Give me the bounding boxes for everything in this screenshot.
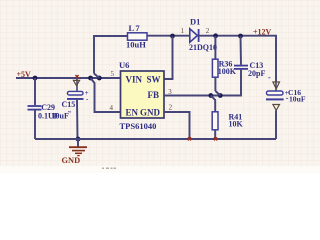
resistor R36 [212, 36, 236, 91]
svg-text:EN: EN [126, 107, 139, 117]
svg-text:-: - [268, 73, 271, 82]
svg-text:10uH: 10uH [126, 40, 146, 50]
svg-text:4: 4 [110, 104, 114, 112]
wire top rail from corner to L7 [94, 36, 128, 74]
wire SW branch [164, 36, 173, 79]
node GND junction [76, 137, 81, 142]
capacitor C13 [234, 36, 265, 78]
diode D1 [189, 17, 217, 52]
svg-text:100K: 100K [218, 67, 237, 76]
svg-text:GND: GND [140, 107, 161, 117]
svg-text:2: 2 [206, 27, 210, 35]
svg-text:VIN: VIN [126, 74, 143, 84]
svg-text:2: 2 [169, 104, 173, 112]
svg-text:10uF: 10uF [52, 112, 69, 121]
node L7 branch [88, 76, 93, 81]
wire GND pin2 down [164, 112, 190, 139]
capacitor C16 [266, 73, 306, 139]
node R36 top junction [213, 33, 218, 38]
ground [62, 139, 88, 165]
wire FB to divider [164, 70, 241, 96]
wire EN jog diagonals [91, 74, 121, 113]
wire FB jog diagonals [211, 91, 221, 112]
svg-text:21DQ10: 21DQ10 [189, 43, 217, 52]
no-ERC marker R41 rail [214, 137, 217, 140]
svg-text:+12V: +12V [253, 28, 272, 37]
svg-text:U6: U6 [119, 60, 129, 70]
resistor R41 [212, 112, 243, 139]
node C13 top junction [238, 34, 243, 39]
wire +5V rail [16, 77, 121, 79]
node C29 tap [33, 76, 38, 81]
no-ERC marker pin2 rail [188, 137, 191, 140]
IC U6 TPS61040 [119, 60, 164, 131]
no-ERC marker C15 [75, 75, 78, 78]
node SW junction [170, 34, 175, 39]
svg-text:SW: SW [147, 74, 161, 84]
svg-text:~: ~ [68, 109, 72, 116]
inductor L7 [126, 23, 147, 50]
node FB junction left [208, 93, 213, 98]
svg-text:FB: FB [148, 90, 160, 100]
node EN branch [97, 76, 102, 81]
svg-text:TPS61040: TPS61040 [120, 121, 157, 131]
svg-text:C15: C15 [62, 100, 76, 109]
svg-text:D1: D1 [190, 17, 200, 27]
capacitor C15 [52, 78, 90, 139]
stray footer marks [102, 168, 116, 170]
svg-text:GND: GND [62, 156, 81, 165]
svg-text:20pF: 20pF [248, 69, 265, 78]
wire D1 to +12V corner [199, 36, 276, 82]
capacitor C29 [28, 78, 59, 139]
node FB junction right [218, 93, 223, 98]
wire bottom rail [35, 138, 276, 140]
wire L7 to D1 [147, 35, 190, 37]
svg-text:C29: C29 [41, 103, 55, 112]
svg-text:10K: 10K [229, 120, 244, 129]
svg-text:10uF: 10uF [289, 94, 306, 103]
svg-text:L7: L7 [129, 23, 141, 33]
svg-text:5: 5 [111, 70, 115, 78]
svg-text:1: 1 [181, 27, 185, 35]
